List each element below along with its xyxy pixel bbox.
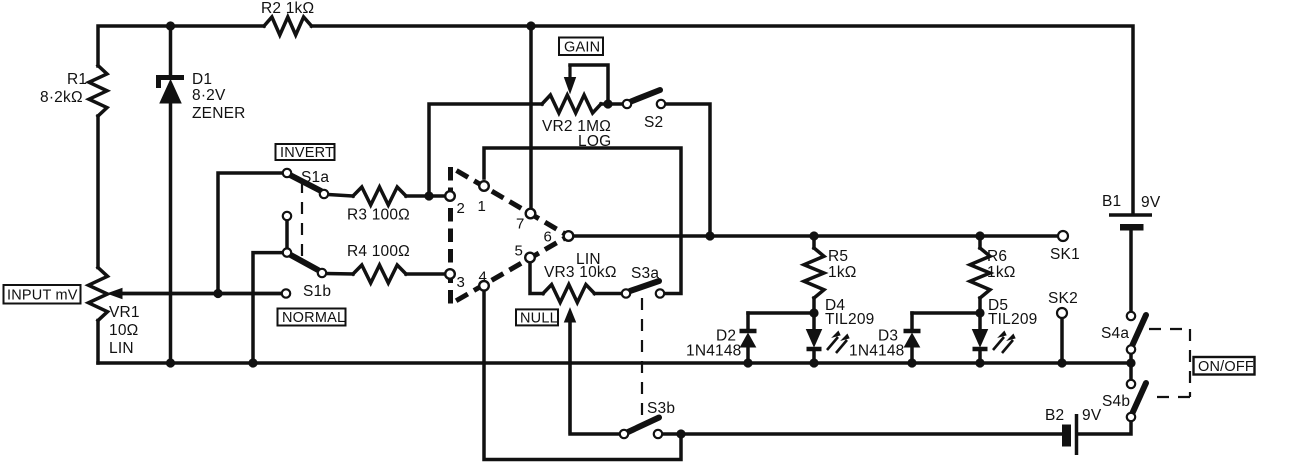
wire VR2 to S2	[601, 102, 622, 106]
pin 6 circle	[564, 231, 574, 241]
potentiometer VR3 wiper arrow	[568, 319, 571, 434]
switch S1b lever	[290, 255, 318, 270]
battery B2 plates	[1063, 425, 1071, 446]
junction dot SK2 rail	[1057, 358, 1066, 367]
resistor R5	[812, 236, 816, 248]
svg-text:R5: R5	[828, 248, 848, 265]
svg-text:1: 1	[478, 198, 486, 215]
wire SK2 stub	[1060, 319, 1064, 363]
svg-text:8·2kΩ: 8·2kΩ	[40, 89, 83, 106]
switch S1b throw bottom circle	[282, 289, 290, 297]
wire pin4 drop to negative rail	[484, 291, 681, 460]
label NULL box	[516, 309, 558, 325]
svg-text:INPUT mV: INPUT mV	[7, 288, 78, 304]
svg-text:SK1: SK1	[1050, 246, 1080, 263]
wire VR3 wiper to S3b	[570, 318, 618, 434]
junction dot VR2 wiper tie	[603, 99, 612, 108]
svg-text:R6: R6	[987, 248, 1007, 265]
switch S1a throw bottom circle	[283, 212, 291, 220]
label ON/OFF box	[1194, 357, 1255, 375]
wire top rail right segment	[312, 26, 1134, 214]
svg-text:D1: D1	[192, 71, 212, 88]
label INVERT box	[276, 144, 335, 160]
wire S3b to negative rail junction	[664, 432, 681, 436]
switch S3b right circle	[654, 430, 662, 438]
dashed link S1	[301, 181, 303, 264]
pin 5 circle	[525, 253, 535, 263]
svg-text:R1: R1	[67, 71, 87, 88]
svg-text:R2 1kΩ: R2 1kΩ	[261, 0, 314, 17]
junction dot D2 D4	[809, 308, 818, 317]
LED D4 symbol	[807, 330, 822, 347]
battery B1 plates	[1109, 213, 1152, 216]
svg-text:S4b: S4b	[1102, 393, 1130, 410]
svg-text:B2: B2	[1045, 407, 1064, 424]
svg-text:1kΩ: 1kΩ	[828, 264, 857, 281]
svg-text:1N4148: 1N4148	[849, 343, 905, 360]
svg-text:S3a: S3a	[631, 265, 659, 282]
resistor R3	[353, 187, 406, 205]
svg-text:GAIN: GAIN	[564, 40, 600, 56]
wire B1 minus to S4a	[1129, 228, 1133, 310]
potentiometer VR1 wiper arrow	[121, 292, 281, 296]
junction dot D3 bottom	[907, 358, 916, 367]
wire output pin6 to SK1	[574, 234, 1057, 238]
wire D2 to rail	[746, 347, 750, 363]
switch S4a top circle	[1127, 312, 1135, 320]
wire bottom rail	[98, 361, 1131, 365]
svg-text:9V: 9V	[1082, 407, 1102, 424]
junction dot S2 output	[705, 231, 714, 240]
svg-text:R3 100Ω: R3 100Ω	[347, 207, 410, 224]
junction dot D4 bottom	[809, 358, 818, 367]
svg-text:9V: 9V	[1141, 194, 1161, 211]
resistor R1	[89, 66, 107, 117]
switch S1b throw top circle	[283, 248, 291, 256]
svg-text:S4a: S4a	[1101, 325, 1129, 342]
wire top rail left segment	[98, 26, 264, 66]
resistor R2	[264, 17, 312, 35]
junction dot D1 top	[166, 21, 175, 30]
junction dot R6 top	[975, 231, 984, 240]
diode D3 symbol	[904, 329, 921, 334]
svg-text:TIL209: TIL209	[825, 311, 874, 328]
label INPUT mV box	[4, 285, 81, 304]
pin 2 circle	[445, 191, 455, 201]
wire D4 leads	[812, 313, 816, 330]
switch S3a left circle	[622, 289, 630, 297]
svg-text:1N4148: 1N4148	[686, 343, 742, 360]
switch S4b lever	[1132, 383, 1146, 414]
label GAIN box	[559, 38, 603, 56]
junction dot S4 rail	[1126, 358, 1135, 367]
wire pin7 to +rail	[529, 26, 533, 208]
LED D4 emission arrows	[827, 337, 838, 350]
svg-text:8·2V: 8·2V	[192, 87, 226, 104]
op-amp U1 dashed triangle	[451, 167, 569, 304]
svg-text:1kΩ: 1kΩ	[987, 264, 1016, 281]
switch S4a bottom circle	[1127, 345, 1135, 353]
switch S4b bottom circle	[1127, 413, 1135, 421]
wire S1a link stub	[285, 220, 289, 248]
resistor R6	[978, 236, 982, 248]
svg-text:2: 2	[457, 200, 465, 217]
svg-text:SK2: SK2	[1048, 290, 1078, 307]
svg-text:R4 100Ω: R4 100Ω	[347, 243, 410, 260]
svg-text:6: 6	[544, 229, 552, 246]
svg-text:S1a: S1a	[301, 169, 329, 186]
svg-text:S2: S2	[644, 114, 663, 131]
svg-text:S3b: S3b	[647, 400, 675, 417]
diode D1 zener vertical wire	[169, 26, 173, 76]
wire R4 to pin 3	[406, 272, 444, 276]
switch S4b top circle	[1127, 380, 1135, 388]
switch S1a pole circle	[320, 190, 328, 198]
svg-text:10Ω: 10Ω	[109, 322, 138, 339]
pin 1 circle	[479, 181, 489, 191]
switch S3a right circle	[656, 289, 664, 297]
wire VR2 wiper tie bracket	[570, 65, 608, 104]
wire pin5 to VR3	[530, 262, 543, 294]
svg-text:B1: B1	[1102, 193, 1121, 210]
wire rail to S4b top	[1129, 363, 1133, 378]
svg-text:ZENER: ZENER	[192, 105, 246, 122]
svg-text:3: 3	[457, 274, 465, 291]
svg-text:ON/OFF: ON/OFF	[1198, 359, 1254, 375]
switch S3a lever	[630, 281, 659, 291]
wire D3 branch	[912, 311, 980, 315]
svg-text:VR1: VR1	[109, 304, 140, 321]
junction dot VR2 left	[424, 191, 433, 200]
svg-text:4: 4	[479, 269, 487, 286]
svg-text:5: 5	[515, 243, 523, 260]
wire left vertical mid segment	[96, 116, 100, 268]
svg-text:TIL209: TIL209	[988, 311, 1037, 328]
label NORMAL box	[278, 309, 346, 326]
wire D3 to rail	[910, 347, 914, 363]
svg-text:NULL: NULL	[520, 310, 558, 326]
svg-text:S1b: S1b	[303, 283, 331, 300]
dashed link S3	[641, 298, 643, 418]
pin 7 circle	[526, 209, 536, 219]
junction dot D2 bottom	[743, 358, 752, 367]
potentiometer VR1 body	[89, 268, 108, 321]
potentiometer VR3 body	[543, 285, 595, 303]
wire S2 to output node	[666, 104, 710, 236]
wire left vertical bottom segment	[96, 321, 100, 364]
LED D5 emission arrows	[993, 337, 1004, 350]
LED D5 symbol	[973, 330, 988, 347]
wire R3 to pin 2	[406, 194, 445, 198]
wire S1a pole to R3	[328, 195, 353, 197]
switch S4a lever	[1132, 315, 1146, 346]
svg-text:7: 7	[516, 216, 524, 233]
potentiometer VR2 body	[542, 95, 601, 113]
switch S2 right circle	[657, 100, 665, 108]
junction dot D5 bottom	[975, 358, 984, 367]
switch S1a lever	[290, 175, 321, 191]
wire S1a throw to input node vertical	[218, 173, 287, 294]
wire VR3 to S3a	[595, 292, 621, 296]
wire B2 plus to S4b	[1078, 423, 1131, 434]
switch S2 left circle	[623, 100, 631, 108]
wire VR1 wiper line	[120, 292, 281, 296]
socket SK2 circle	[1057, 308, 1067, 318]
junction dot wiper line	[213, 289, 222, 298]
wire S1b pole to R4	[326, 272, 353, 276]
svg-text:NORMAL: NORMAL	[282, 310, 345, 326]
wire D5 leads	[978, 313, 982, 330]
dashed link S4	[1149, 329, 1190, 397]
switch S3b lever	[628, 418, 659, 433]
switch S2 lever	[631, 90, 660, 102]
svg-text:LIN: LIN	[109, 340, 134, 357]
pin 4 circle	[479, 281, 489, 291]
wire negative rail B2 to S3b junction	[681, 432, 1062, 436]
wire S4a bottom to rail	[1129, 355, 1133, 363]
junction dot D3 D5	[975, 308, 984, 317]
svg-text:VR3 10kΩ: VR3 10kΩ	[544, 264, 617, 281]
wire D2 branch	[748, 311, 814, 315]
resistor R4	[353, 265, 406, 283]
svg-text:INVERT: INVERT	[280, 145, 334, 161]
wire pin1 feedback to S3a	[484, 148, 681, 294]
wire VR2 left leg down to pin2 node	[429, 104, 542, 196]
svg-text:LOG: LOG	[578, 133, 611, 150]
switch S3b left circle	[620, 430, 628, 438]
pin 3 circle	[445, 269, 455, 279]
diode D2 symbol	[740, 329, 757, 334]
junction dot S1b ground	[248, 358, 257, 367]
junction dot S3b pin4	[676, 429, 685, 438]
switch S1a throw top circle	[283, 169, 291, 177]
junction dot D1 bottom	[166, 358, 175, 367]
socket SK1 circle	[1058, 231, 1068, 241]
junction dot pin7 rail	[526, 21, 535, 30]
wire S1b upper throw to ground vertical	[253, 253, 287, 363]
switch S1b pole circle	[318, 269, 326, 277]
junction dot R5 top	[809, 231, 818, 240]
diode D1 zener symbol	[159, 78, 185, 89]
potentiometer VR2 wiper arrow	[568, 65, 571, 80]
